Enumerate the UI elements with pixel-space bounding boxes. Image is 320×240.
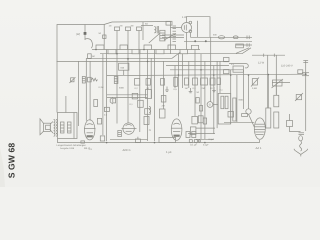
wire osc row2 bbox=[184, 40, 252, 42]
node antenna tap W bbox=[84, 25, 86, 41]
chassis box outline top-left bbox=[57, 25, 104, 113]
svg-text:AZ 1: AZ 1 bbox=[256, 146, 262, 150]
coil L2 bbox=[126, 27, 131, 31]
wire drop L2 bbox=[127, 31, 129, 54]
svg-text:(W): (W) bbox=[76, 33, 80, 36]
resistor R1 bbox=[88, 77, 92, 82]
resistor R20 dropper bbox=[266, 108, 271, 128]
svg-text:0,5M: 0,5M bbox=[252, 87, 257, 90]
bus AVC y54 bbox=[100, 48, 251, 54]
coil L1 bbox=[115, 27, 120, 31]
wire v201 bbox=[200, 54, 202, 140]
svg-text:110-240 V: 110-240 V bbox=[281, 65, 293, 68]
wire junction marks bbox=[299, 132, 305, 134]
resistor R25 bbox=[185, 78, 189, 85]
wire v103 bbox=[102, 54, 104, 135]
svg-text:2N: 2N bbox=[120, 24, 123, 27]
wire h128 bbox=[196, 127, 215, 129]
svg-text:1M: 1M bbox=[92, 55, 95, 58]
wire lamp bottom bbox=[224, 121, 254, 123]
tube U1 top circle bbox=[182, 23, 192, 33]
potentiometer P3 bbox=[296, 95, 301, 100]
wire v90 bbox=[89, 61, 91, 120]
wire v189 bbox=[188, 61, 190, 88]
coil L3 bbox=[137, 27, 142, 31]
wire oscillator loop bbox=[187, 17, 211, 38]
wire mains switch row bbox=[252, 54, 285, 56]
bottom bus bbox=[58, 139, 260, 143]
capacitor C21 bbox=[144, 117, 149, 125]
capacitor C6 bbox=[132, 93, 138, 99]
wire stub bbox=[141, 25, 153, 27]
resistor R18 bbox=[221, 96, 224, 109]
wire v243 bbox=[242, 70, 244, 109]
wire v231 bbox=[230, 70, 232, 124]
shield box IF bbox=[142, 22, 144, 40]
wire v140 bbox=[139, 54, 141, 132]
resistor R9 bbox=[210, 78, 215, 85]
wire v268 bbox=[267, 55, 269, 108]
capacitor C3 padder bbox=[233, 36, 238, 39]
ground g3 bbox=[213, 87, 215, 91]
mains cord loop bbox=[299, 136, 303, 141]
wire mains vertical bbox=[305, 61, 307, 132]
tube V1 AL4 bbox=[85, 120, 95, 140]
capacitor C17 bbox=[82, 77, 85, 84]
ground g2 bbox=[190, 88, 192, 92]
svg-text:0,1µF: 0,1µF bbox=[209, 138, 215, 141]
resistor R17 bbox=[190, 127, 196, 134]
coil L4 box bbox=[233, 66, 243, 72]
bus y65 bbox=[166, 65, 229, 67]
wire diagonal lead bbox=[149, 34, 160, 44]
switch S1 lever bbox=[236, 48, 249, 54]
tube V4 AZ1 rectifier bbox=[254, 118, 265, 139]
bus grid y59 bbox=[86, 57, 172, 59]
resistor R22 bbox=[203, 118, 206, 124]
resistor R16 bbox=[192, 116, 198, 124]
svg-text:G: G bbox=[209, 104, 211, 107]
capacitor C24 bbox=[161, 96, 166, 103]
capacitor C20 bbox=[118, 131, 122, 137]
switch hook bbox=[85, 39, 92, 49]
wire v128 bbox=[127, 54, 129, 124]
wire top bus jog bbox=[104, 22, 171, 25]
resistor R8 bbox=[201, 78, 208, 85]
wire v147 bbox=[147, 50, 149, 142]
wire v170 bbox=[170, 22, 172, 54]
potentiometer P1 bbox=[252, 79, 257, 85]
svg-text:5000: 5000 bbox=[119, 87, 125, 90]
svg-text:12 W: 12 W bbox=[258, 62, 265, 65]
loudspeaker LS bbox=[43, 123, 50, 131]
capacitor C25 bbox=[298, 70, 303, 74]
resistor R10 box right bbox=[224, 58, 230, 62]
capacitor C5 box bbox=[236, 44, 244, 48]
capacitor C14 on bus bbox=[81, 141, 85, 143]
magic eye circle G bbox=[207, 102, 213, 108]
tube V3 AF7 bbox=[171, 119, 182, 140]
wire drop L3 bbox=[138, 31, 140, 54]
wire h98 bbox=[107, 97, 148, 99]
resistor R26 bbox=[217, 78, 221, 85]
capacitor C18 bbox=[114, 77, 118, 84]
resistor R23 bbox=[88, 54, 92, 59]
resistor R2 zigzag bbox=[92, 78, 98, 81]
capacitor C15 bbox=[196, 98, 199, 103]
svg-text:1 W: 1 W bbox=[182, 16, 187, 19]
resistor R28 bbox=[198, 116, 203, 123]
svg-text:Ausgabe 1938: Ausgabe 1938 bbox=[60, 147, 75, 150]
wire v237 bbox=[236, 75, 238, 122]
coil L5 bbox=[149, 107, 151, 113]
connector on bus bbox=[135, 139, 140, 142]
wire v154 bbox=[154, 50, 156, 142]
resistor R14 bbox=[94, 100, 98, 107]
wire drop L1 bbox=[116, 31, 118, 50]
wire oscillator vertical bbox=[197, 21, 199, 38]
capacitor C16 bbox=[199, 106, 202, 112]
svg-text:1M: 1M bbox=[185, 87, 188, 90]
output transformer Tr3 bbox=[54, 120, 55, 137]
capacitor C10 bbox=[146, 90, 152, 99]
IF transformer Tr1 coil bbox=[154, 27, 156, 33]
capacitor C7 bbox=[104, 107, 109, 111]
svg-text:0,1 µF: 0,1 µF bbox=[190, 144, 198, 147]
ground g1 bbox=[166, 87, 168, 91]
wire v163 bbox=[163, 61, 165, 109]
bus HT y75 bbox=[107, 74, 306, 75]
wire U1 cathode drop bbox=[186, 33, 188, 50]
wire v195 bbox=[194, 50, 196, 117]
capacitor C8 bbox=[97, 118, 101, 124]
svg-text:ACH 1: ACH 1 bbox=[123, 148, 132, 152]
capacitor C13 bbox=[68, 122, 72, 133]
tuning coil hatch bbox=[162, 34, 184, 36]
capacitor C11 bbox=[228, 112, 234, 118]
wire v205 bbox=[204, 61, 206, 139]
IF transformer Tr2 coil bbox=[160, 30, 165, 41]
svg-text:2M: 2M bbox=[162, 105, 165, 108]
mains plug bbox=[294, 149, 308, 155]
wire vertical LW bbox=[103, 25, 105, 50]
wire v117 bbox=[116, 50, 118, 124]
switch S2 lever bbox=[172, 52, 181, 58]
pickup hook bbox=[229, 64, 248, 68]
svg-text:S GW 68: S GW 68 bbox=[6, 143, 16, 179]
capacitor C9 bbox=[100, 136, 104, 141]
resistor R3 bbox=[119, 63, 129, 70]
wire rectifier cathode bbox=[259, 140, 261, 143]
box feedback bbox=[218, 93, 231, 124]
page edge shadow bbox=[0, 148, 5, 187]
wire padder row bbox=[190, 36, 252, 38]
wire h139 bbox=[110, 138, 148, 140]
node mains crossing bbox=[302, 72, 309, 74]
wire v151 bbox=[150, 58, 152, 98]
resistor R5 bbox=[146, 79, 150, 86]
resistor R27 bbox=[161, 79, 165, 86]
svg-text:0,1M: 0,1M bbox=[99, 86, 104, 89]
wire v217 bbox=[216, 61, 218, 128]
wire h134 bbox=[188, 133, 215, 135]
capacitor C23 bbox=[192, 132, 196, 138]
wire h95 bbox=[107, 94, 148, 96]
fuse F1 bbox=[287, 121, 293, 127]
resistor R24 bbox=[242, 114, 248, 117]
wire v214 bbox=[213, 66, 215, 134]
wire switch branch bbox=[236, 44, 252, 46]
svg-text:3N: 3N bbox=[131, 24, 134, 27]
potentiometer P2 volume bbox=[273, 80, 283, 86]
svg-text:5000: 5000 bbox=[239, 99, 245, 102]
resistor R21 dropper bbox=[274, 95, 279, 107]
svg-text:0,1µF: 0,1µF bbox=[203, 143, 209, 146]
resistor R4 bbox=[135, 79, 140, 86]
svg-text:1N: 1N bbox=[109, 24, 112, 27]
wire v220 bbox=[219, 61, 221, 93]
svg-text:1 µF: 1 µF bbox=[166, 150, 172, 154]
shield stripes bbox=[173, 25, 177, 27]
jack cone bbox=[110, 97, 113, 104]
capacitor block C19 bbox=[159, 137, 176, 142]
bus y70 bbox=[170, 69, 243, 71]
tap box on bus bbox=[166, 21, 172, 25]
resistor R13 bbox=[145, 109, 151, 115]
band switch contact row bbox=[92, 49, 200, 51]
trimmer T1 bbox=[71, 78, 74, 82]
capacitor C4 trimmer bbox=[246, 36, 248, 40]
resistor R29 tall bbox=[233, 98, 236, 121]
wire v276 bbox=[275, 55, 277, 95]
terminal cluster bbox=[189, 140, 192, 143]
bus y61 bbox=[57, 60, 230, 62]
capacitor C22 bbox=[186, 132, 190, 138]
resistor R11 box right bbox=[224, 70, 230, 74]
resistor R7 bbox=[193, 78, 198, 85]
svg-text:Lange-Nowisch Schaltungen: Lange-Nowisch Schaltungen bbox=[57, 144, 87, 147]
wire v182 bbox=[182, 54, 184, 88]
capacitor C12 bbox=[61, 122, 65, 133]
mains cord bbox=[300, 141, 302, 151]
svg-text:2M: 2M bbox=[202, 87, 205, 90]
tube pin circles bbox=[189, 21, 192, 24]
wire v66 bbox=[65, 96, 67, 113]
resistor R15 bbox=[160, 109, 166, 118]
resistor R12 bbox=[138, 100, 144, 107]
wire v79 bbox=[78, 61, 80, 126]
resistor R19 bbox=[225, 96, 228, 109]
capacitor C2 padder bbox=[218, 36, 224, 39]
svg-text:+ U: + U bbox=[89, 148, 93, 151]
dial lamp La bbox=[246, 109, 251, 114]
wire in box bbox=[73, 113, 75, 139]
resistor R6 bbox=[174, 77, 178, 86]
tube V2 ACH1 bbox=[123, 123, 134, 134]
capacitor C1 bbox=[103, 35, 106, 38]
wire v211 bbox=[210, 37, 212, 101]
wire h139b bbox=[196, 138, 214, 140]
wire v107 bbox=[106, 50, 108, 142]
wire v175 bbox=[174, 66, 176, 89]
wire v178 tube3 anode bbox=[177, 54, 179, 117]
output filter box bbox=[58, 113, 78, 139]
wire v86 bbox=[85, 58, 87, 121]
